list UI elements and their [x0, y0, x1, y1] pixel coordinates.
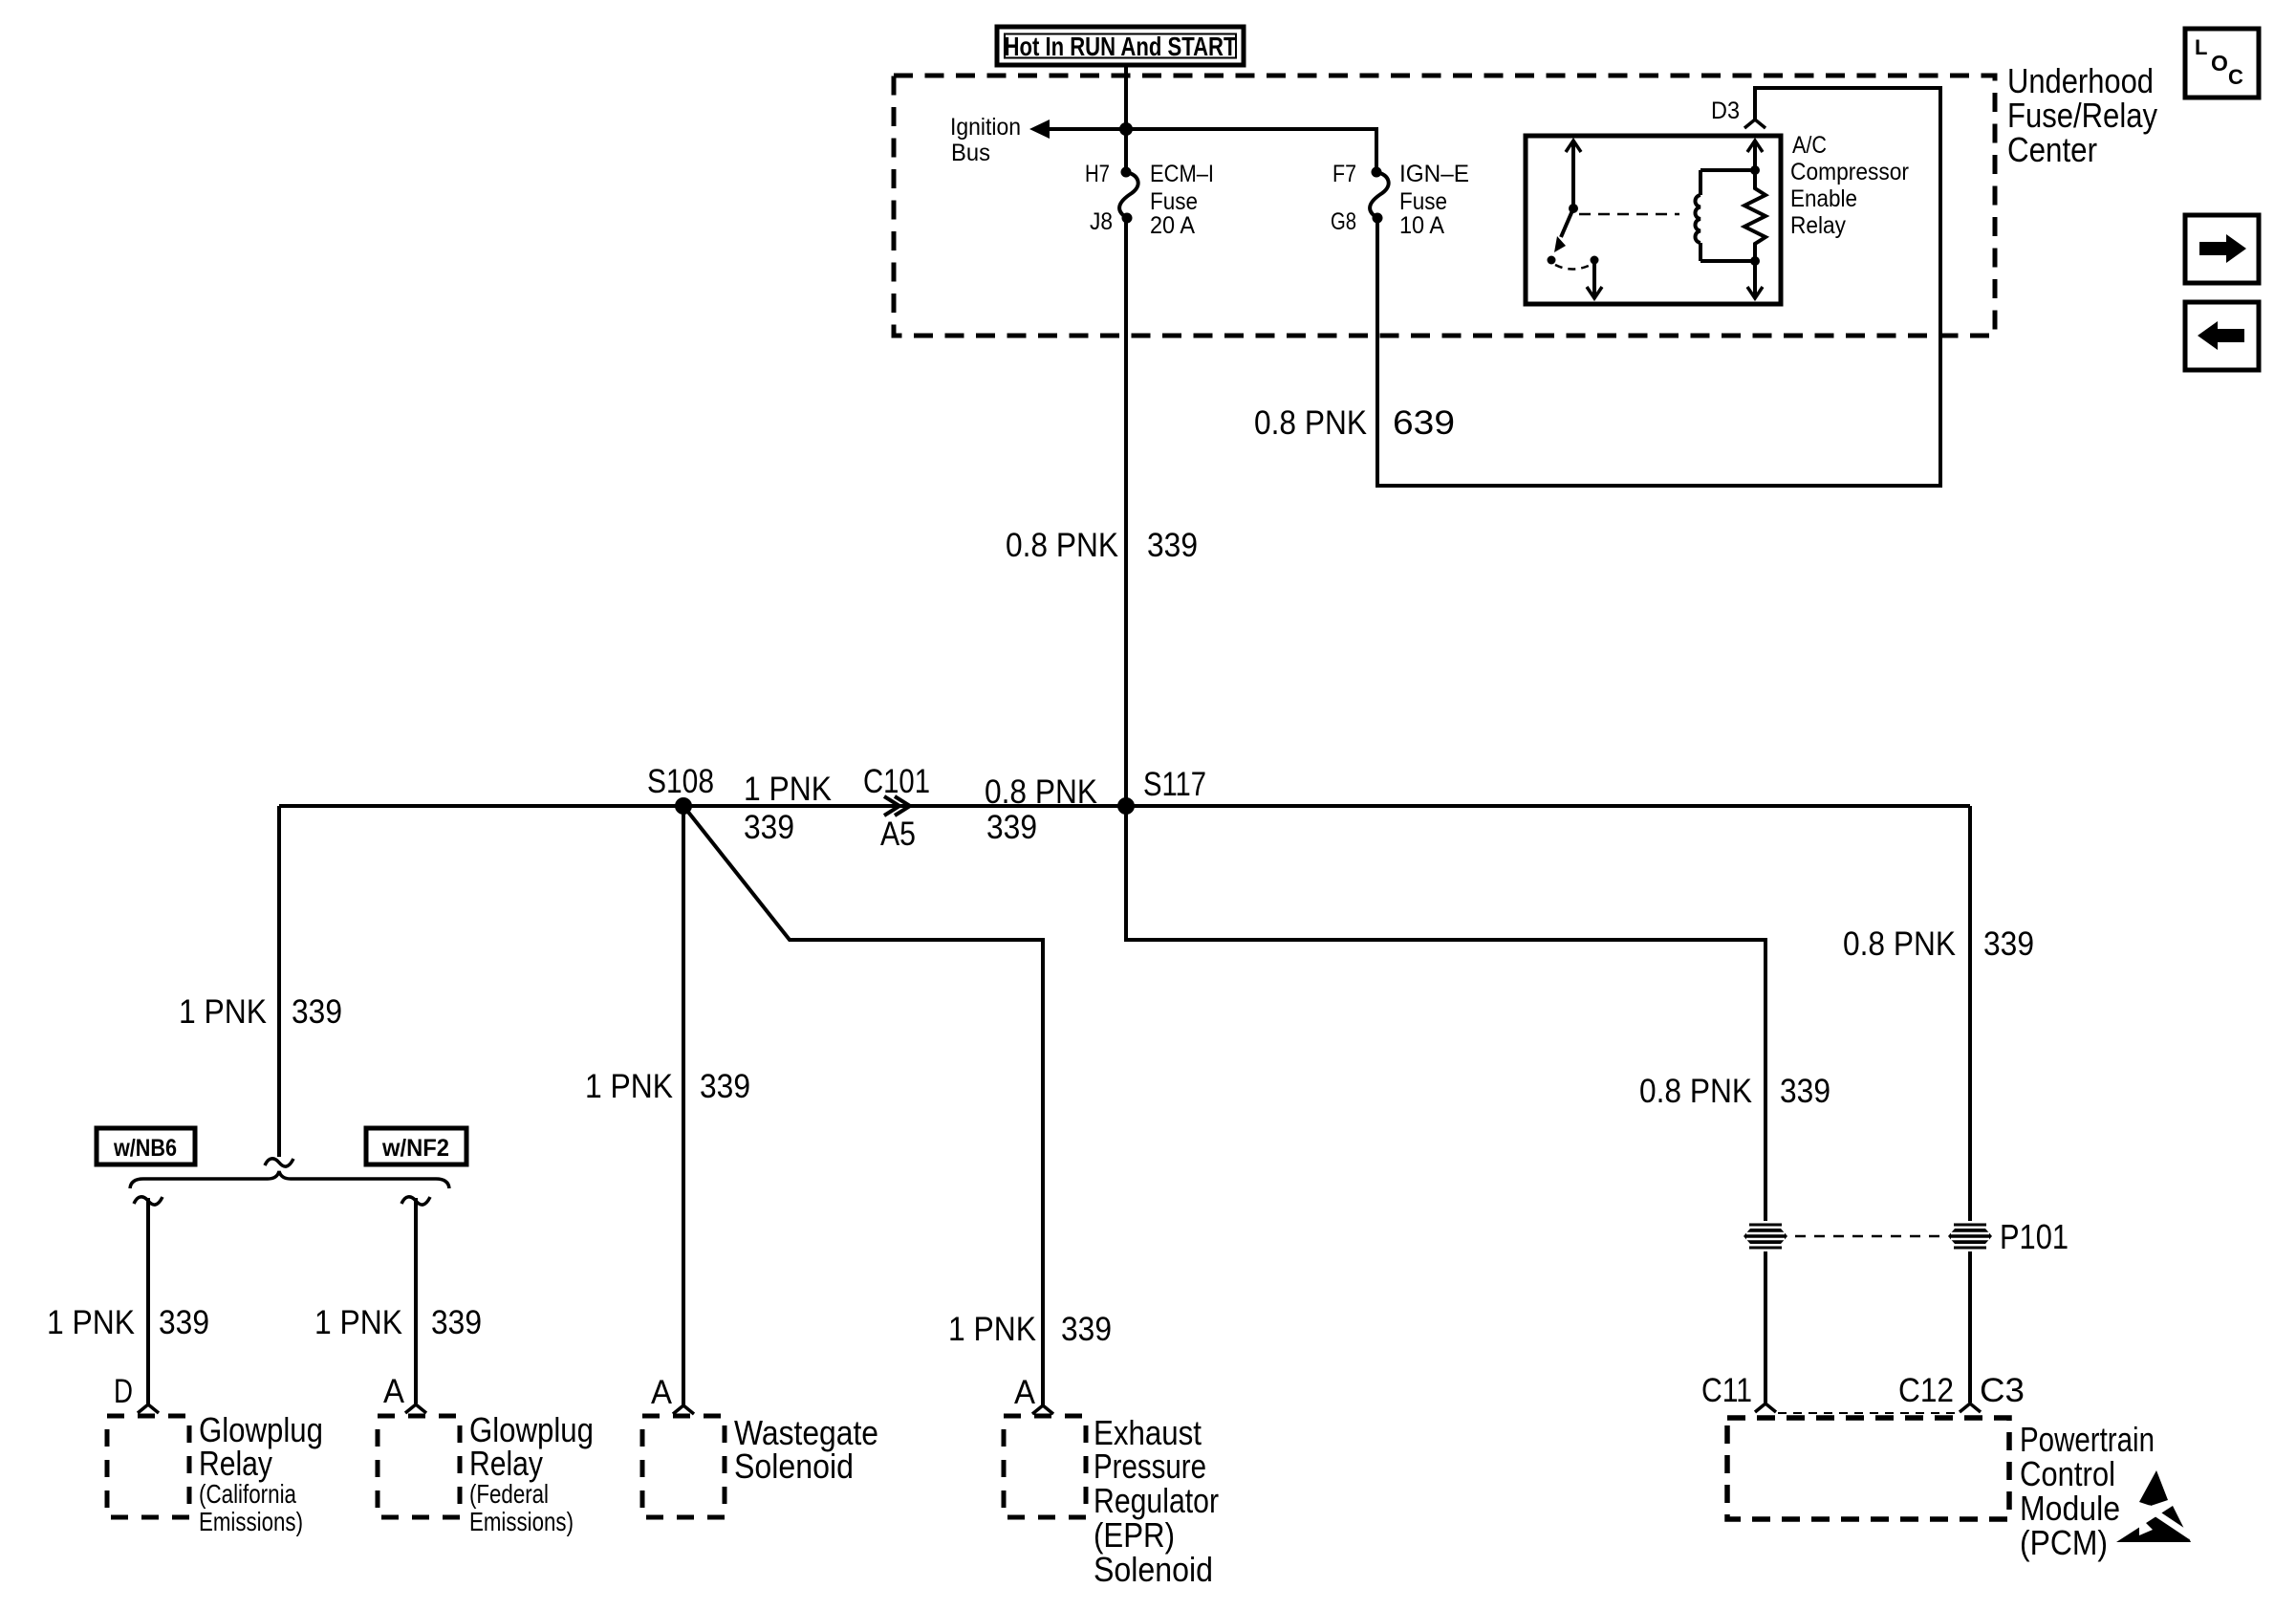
wire ECM-I fuse output down to S117: [1124, 218, 1128, 806]
relay switch pivot node: [1569, 204, 1578, 213]
svg-text:1 PNK: 1 PNK: [744, 771, 832, 808]
svg-text:Fuse/Relay: Fuse/Relay: [2007, 96, 2157, 135]
wire main PNK 339 bus: [279, 804, 1970, 808]
svg-text:w/NF2: w/NF2: [381, 1135, 449, 1162]
svg-text:339: 339: [431, 1304, 482, 1341]
svg-text:P101: P101: [2000, 1217, 2069, 1256]
pin D3 connector chevron: [1744, 120, 1765, 128]
wire coil top tie: [1700, 168, 1755, 172]
wire NB6 branch down to glowplug relay CA: [146, 1198, 150, 1404]
resistor R1 in relay: [1744, 170, 1765, 261]
label Glowplug Relay (California Emissions): [199, 1410, 323, 1536]
label ECM-I Fuse 20 A: [1150, 161, 1214, 239]
label 1 PNK 339 NF2 branch: [314, 1304, 482, 1341]
svg-text:339: 339: [292, 993, 342, 1031]
svg-text:639: 639: [1393, 404, 1455, 442]
wire S108 diagonal to EPR solenoid: [683, 806, 1043, 1405]
svg-text:(California: (California: [199, 1479, 296, 1509]
wire right bus corner down to PCM C12: [1968, 806, 1972, 1221]
wire break tilde NB6 branch: [134, 1197, 162, 1205]
wire S117 down then right to PCM C11: [1126, 806, 1765, 1221]
label 0.8 PNK 639: [1254, 404, 1455, 442]
svg-text:Relay: Relay: [1790, 212, 1846, 239]
svg-text:C12: C12: [1898, 1372, 1954, 1409]
relay U1 A/C Compressor Enable Relay box: [1526, 136, 1781, 304]
svg-text:Hot In RUN And START: Hot In RUN And START: [1005, 32, 1237, 61]
label 0.8 PNK 339 inner: [1639, 1073, 1830, 1110]
option box w/NB6: [97, 1128, 195, 1164]
svg-text:Emissions): Emissions): [199, 1507, 303, 1536]
component Glowplug Relay California dashed box: [107, 1416, 189, 1517]
node Hot In RUN And START feed box: [997, 27, 1244, 65]
svg-text:339: 339: [744, 809, 794, 846]
svg-text:(Federal: (Federal: [469, 1479, 549, 1509]
wire P101 left to C11: [1764, 1251, 1767, 1403]
svg-text:1 PNK: 1 PNK: [314, 1304, 402, 1341]
label 0.8 PNK 339 on bus: [985, 773, 1097, 846]
label IGN-E Fuse 10 A: [1399, 161, 1469, 239]
relay contact node left: [1548, 256, 1556, 265]
wire S108 down to wastegate solenoid: [682, 806, 685, 1405]
pin chevron C11: [1755, 1403, 1776, 1412]
relay movable contact arm with arrowhead: [1554, 208, 1573, 252]
wire coil bottom tie: [1700, 259, 1755, 263]
svg-text:Bus: Bus: [951, 140, 990, 166]
wire dashed P101 tie: [1795, 1235, 1940, 1238]
svg-text:1 PNK: 1 PNK: [948, 1311, 1036, 1348]
node coil top junction: [1750, 165, 1760, 175]
svg-text:0.8 PNK: 0.8 PNK: [1843, 925, 1956, 963]
svg-text:Center: Center: [2007, 130, 2097, 169]
relay coil output pin arrow down: [1747, 261, 1763, 298]
svg-text:Pressure: Pressure: [1094, 1447, 1206, 1486]
wire dashed C11 to C12 connector tie: [1778, 1412, 1956, 1414]
svg-text:1 PNK: 1 PNK: [179, 993, 267, 1031]
splice S108: [675, 797, 692, 815]
label A/C Compressor Enable Relay: [1790, 132, 1909, 239]
svg-text:339: 339: [1147, 527, 1198, 564]
wire P101 right to C12: [1968, 1251, 1972, 1403]
svg-text:Relay: Relay: [199, 1444, 272, 1483]
component EPR Solenoid dashed box: [1004, 1416, 1086, 1517]
right arrow page-reference box: [2185, 215, 2259, 283]
left arrow page-reference box: [2185, 302, 2259, 370]
component PCM dashed box: [1727, 1418, 2009, 1519]
svg-text:A5: A5: [880, 816, 916, 853]
option box w/NF2: [366, 1128, 466, 1164]
pin chevron glowplug Fed: [405, 1404, 426, 1413]
relay output pin arrow down: [1587, 260, 1602, 298]
svg-text:O: O: [2211, 51, 2228, 76]
ESD symbol triangle with hand: [2116, 1506, 2191, 1542]
svg-text:339: 339: [1983, 925, 2034, 963]
pin chevron glowplug CA: [138, 1404, 159, 1413]
svg-text:Solenoid: Solenoid: [1094, 1550, 1213, 1589]
label Ignition Bus: [950, 114, 1021, 166]
relay dashed contact arc: [1555, 265, 1591, 270]
svg-text:C: C: [2228, 65, 2243, 89]
pin chevron C12: [1960, 1403, 1981, 1412]
label Wastegate Solenoid: [734, 1413, 878, 1486]
svg-text:0.8 PNK: 0.8 PNK: [1006, 527, 1118, 564]
svg-text:339: 339: [1061, 1311, 1112, 1348]
svg-text:C3: C3: [1980, 1372, 2025, 1409]
LOC page-reference box: [2185, 29, 2259, 98]
svg-text:Underhood: Underhood: [2007, 61, 2154, 100]
connector P101 pass-through grommet left: [1744, 1225, 1787, 1248]
svg-text:J8: J8: [1090, 208, 1113, 235]
svg-text:Fuse: Fuse: [1399, 188, 1447, 215]
svg-text:(EPR): (EPR): [1094, 1515, 1175, 1555]
underhood fuse/relay center dashed box: [894, 76, 1995, 336]
svg-text:339: 339: [986, 809, 1037, 846]
wire IGN-E fuse output loop to relay coil D3: [1377, 88, 1940, 486]
svg-text:10 A: 10 A: [1399, 212, 1444, 239]
svg-text:Ignition: Ignition: [950, 114, 1021, 141]
wire NF2 branch down to glowplug relay Fed: [414, 1198, 418, 1403]
svg-text:339: 339: [159, 1304, 209, 1341]
svg-text:339: 339: [1780, 1073, 1830, 1110]
relay switch common pin arrow up: [1566, 141, 1581, 208]
pin chevron wastegate: [673, 1405, 694, 1414]
label Exhaust Pressure Regulator (EPR) Solenoid: [1094, 1413, 1219, 1589]
svg-text:Regulator: Regulator: [1094, 1481, 1219, 1520]
svg-text:Powertrain: Powertrain: [2020, 1420, 2155, 1459]
svg-text:(PCM): (PCM): [2020, 1523, 2108, 1562]
svg-text:1 PNK: 1 PNK: [47, 1304, 135, 1341]
ESD symbol small triangle: [2139, 1470, 2168, 1506]
node junction at ignition bus: [1119, 122, 1133, 136]
relay coil L1: [1695, 170, 1700, 261]
relay contact node right: [1591, 256, 1599, 265]
pin chevron EPR: [1032, 1405, 1053, 1414]
svg-text:0.8 PNK: 0.8 PNK: [1254, 404, 1367, 442]
wire ignition bus with arrow: [1029, 120, 1376, 172]
label 1 PNK 339 left leg: [179, 993, 342, 1031]
svg-text:S108: S108: [647, 763, 714, 800]
svg-text:339: 339: [700, 1068, 750, 1105]
svg-text:Fuse: Fuse: [1150, 188, 1198, 215]
svg-text:Solenoid: Solenoid: [734, 1447, 854, 1486]
label Underhood Fuse/Relay Center: [2007, 61, 2157, 169]
svg-text:Relay: Relay: [469, 1444, 543, 1483]
svg-text:0.8 PNK: 0.8 PNK: [985, 773, 1097, 811]
label 0.8 PNK 339 upper: [1006, 527, 1198, 564]
svg-text:Module: Module: [2020, 1489, 2120, 1528]
fuse IGN-E 10A terminals F7/G8: [1370, 167, 1389, 224]
svg-text:D: D: [114, 1373, 133, 1410]
label Powertrain Control Module (PCM): [2020, 1420, 2155, 1562]
fuse ECM-I 20A terminals H7/J8: [1119, 167, 1138, 224]
label 1 PNK 339 EPR: [948, 1311, 1112, 1348]
label 1 PNK 339 NB6 branch: [47, 1304, 209, 1341]
svg-text:A: A: [1014, 1374, 1036, 1411]
relay coil input pin arrow up: [1747, 141, 1763, 170]
wire bus left leg down to options brace: [277, 806, 281, 1157]
svg-text:IGN–E: IGN–E: [1399, 161, 1469, 187]
node coil bottom junction: [1750, 256, 1760, 266]
svg-text:0.8 PNK: 0.8 PNK: [1639, 1073, 1752, 1110]
svg-text:w/NB6: w/NB6: [113, 1135, 177, 1162]
connector P101 pass-through grommet right: [1948, 1225, 1992, 1248]
svg-text:A/C: A/C: [1792, 132, 1827, 159]
wire from Hot In RUN feed down into fuse block: [1124, 65, 1128, 172]
svg-text:H7: H7: [1085, 161, 1110, 187]
svg-text:D3: D3: [1711, 98, 1740, 124]
svg-text:Compressor: Compressor: [1790, 159, 1909, 185]
svg-text:Emissions): Emissions): [469, 1507, 574, 1536]
splice S117: [1117, 797, 1135, 815]
svg-text:ECM–I: ECM–I: [1150, 161, 1214, 187]
svg-text:C101: C101: [863, 763, 930, 800]
label 0.8 PNK 339 right: [1843, 925, 2034, 963]
label Glowplug Relay (Federal Emissions): [469, 1410, 594, 1536]
component Glowplug Relay Federal dashed box: [378, 1416, 460, 1517]
label 1 PNK 339 on bus: [744, 771, 832, 846]
svg-text:Control: Control: [2020, 1454, 2115, 1493]
svg-text:A: A: [651, 1374, 673, 1411]
svg-text:F7: F7: [1332, 161, 1356, 187]
svg-text:1 PNK: 1 PNK: [585, 1068, 673, 1105]
wire break tilde NF2 branch: [401, 1197, 430, 1205]
svg-text:A: A: [383, 1373, 405, 1410]
svg-text:C11: C11: [1701, 1372, 1752, 1409]
connector C101 pin A5 pass-through: [884, 796, 910, 816]
svg-text:Enable: Enable: [1790, 185, 1857, 212]
component Wastegate Solenoid dashed box: [642, 1416, 725, 1517]
relay dashed actuation line: [1579, 213, 1679, 216]
wire break tilde at brace: [265, 1159, 293, 1166]
label 1 PNK 339 wastegate: [585, 1068, 750, 1105]
svg-text:G8: G8: [1331, 208, 1356, 235]
options brace: [130, 1171, 449, 1188]
svg-text:S117: S117: [1143, 766, 1206, 803]
svg-text:20 A: 20 A: [1150, 212, 1195, 239]
svg-text:L: L: [2195, 35, 2207, 59]
